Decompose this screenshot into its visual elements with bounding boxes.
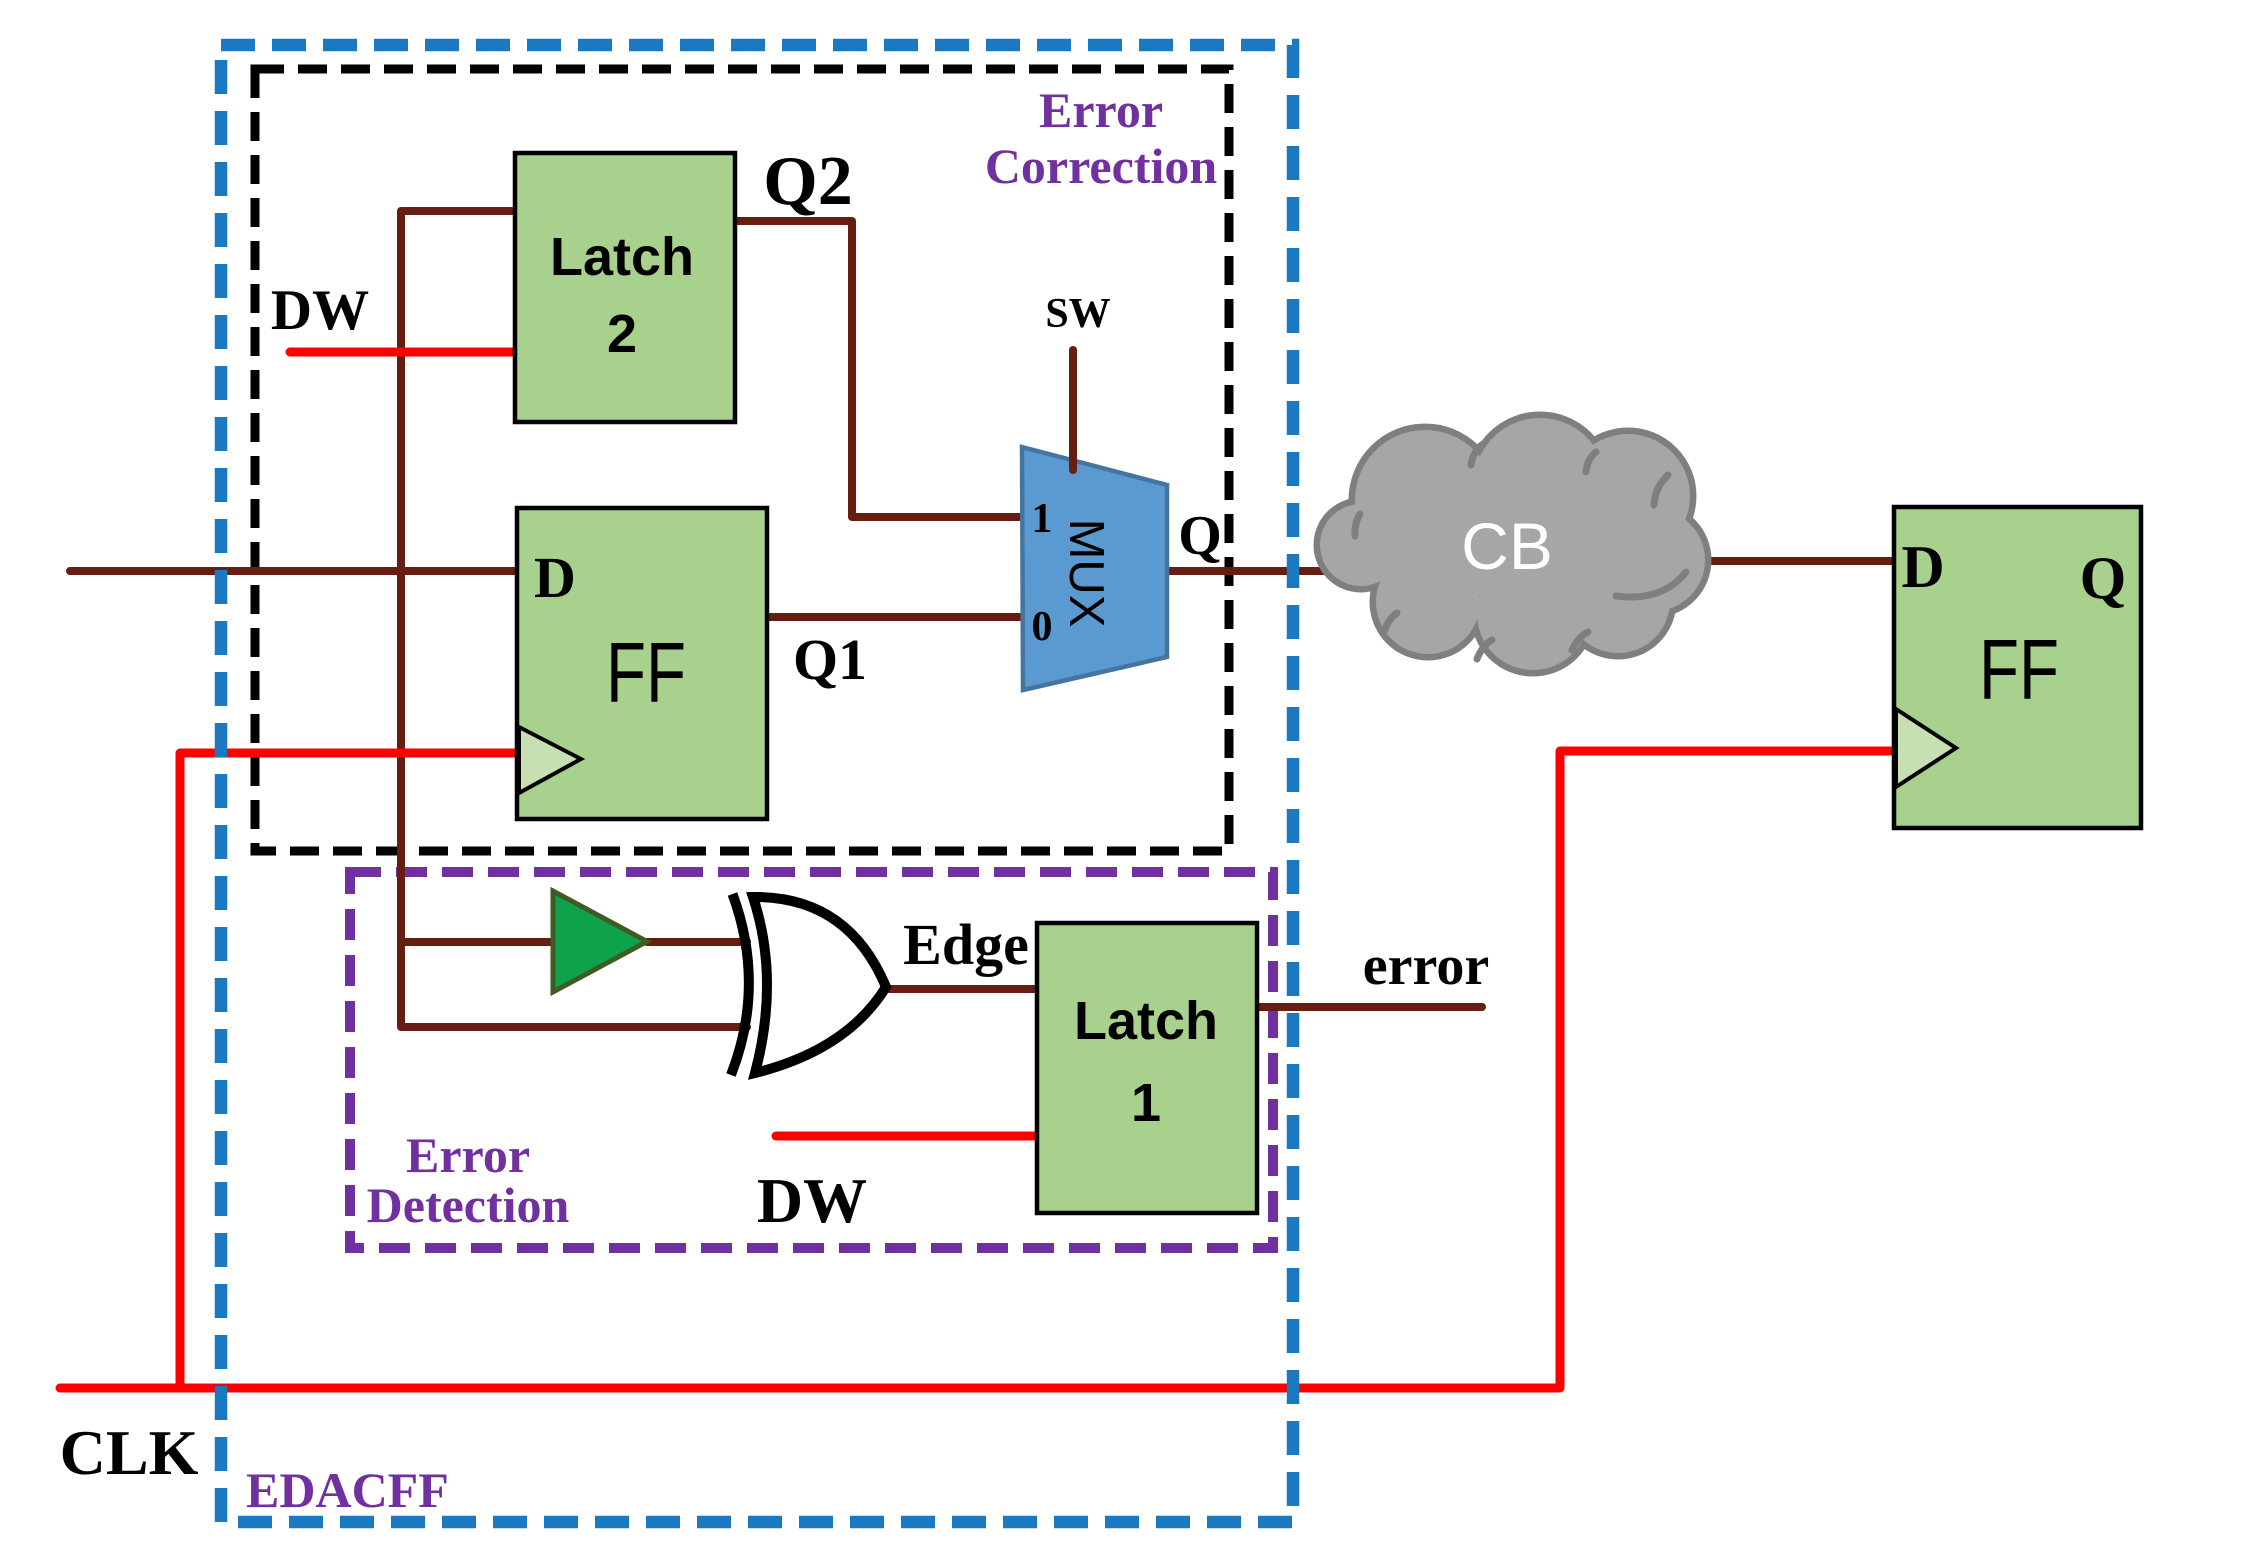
svg-text:SW: SW [1045, 291, 1110, 337]
svg-text:0: 0 [1032, 604, 1053, 650]
svg-text:EDACFF: EDACFF [246, 1462, 449, 1518]
svg-text:1: 1 [1032, 496, 1053, 542]
svg-text:Q: Q [2080, 545, 2127, 611]
svg-text:2: 2 [607, 304, 637, 364]
svg-text:CLK: CLK [60, 1417, 199, 1488]
svg-text:Correction: Correction [985, 138, 1218, 194]
svg-text:D: D [534, 545, 576, 610]
svg-text:DW: DW [271, 279, 369, 342]
svg-text:Q2: Q2 [763, 143, 852, 220]
svg-text:Detection: Detection [367, 1177, 570, 1233]
svg-text:Q1: Q1 [793, 627, 867, 692]
svg-text:CB: CB [1461, 509, 1553, 583]
svg-text:DW: DW [757, 1165, 867, 1236]
svg-text:MUX: MUX [1059, 519, 1113, 628]
svg-text:Latch: Latch [1074, 991, 1218, 1051]
svg-text:FF: FF [606, 626, 686, 721]
svg-text:D: D [1901, 534, 1944, 600]
svg-text:Error: Error [1039, 82, 1163, 138]
svg-text:Error: Error [406, 1127, 530, 1183]
svg-text:error: error [1363, 935, 1489, 997]
svg-text:Edge: Edge [903, 912, 1029, 977]
svg-text:FF: FF [1979, 623, 2059, 718]
svg-text:Latch: Latch [550, 227, 694, 287]
svg-text:1: 1 [1131, 1073, 1161, 1133]
svg-text:Q: Q [1178, 505, 1222, 567]
